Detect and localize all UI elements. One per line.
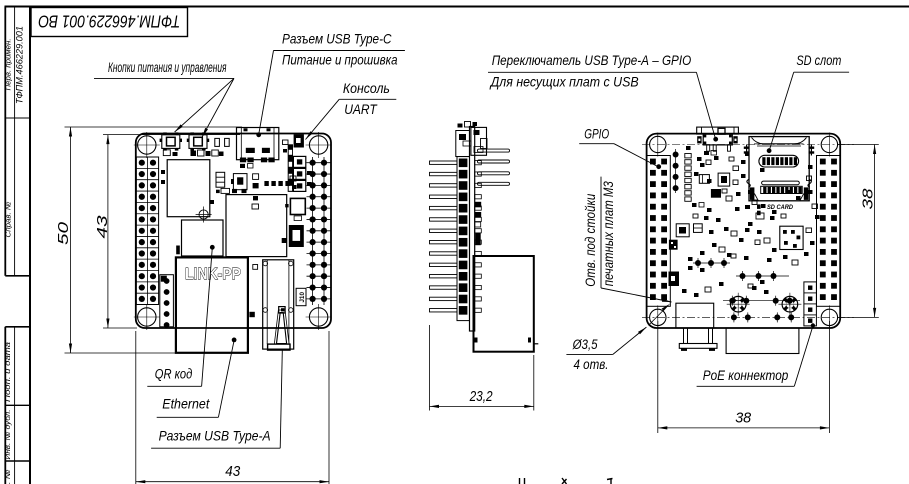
dimension 43 (board height, left) xyxy=(94,135,240,328)
callout: diameter 3,5 / 4 otv. xyxy=(566,304,670,372)
back mounting hole top-right xyxy=(821,133,837,157)
back mounting hole bottom-left xyxy=(650,305,666,329)
callout: Ethernet xyxy=(157,338,237,418)
back GPIO header right column xyxy=(817,156,841,307)
callout: Razem USB Type-A xyxy=(151,351,282,449)
label Sprav. No xyxy=(4,202,13,238)
side view: UART pins pointing right xyxy=(478,149,510,185)
side view: GPIO header body and pins xyxy=(430,157,482,321)
front header J7 (5-pin) xyxy=(160,275,174,328)
callout: PoE konnektor xyxy=(697,323,816,386)
label Podp. i data xyxy=(3,342,12,402)
back GPIO header left column xyxy=(647,156,671,307)
back pad column (inner left) xyxy=(685,154,691,202)
designation stamp box TFPM.466229.001 VO (rotated 180) xyxy=(31,8,188,37)
svg-text:Взам. инв. №: Взам. инв. № xyxy=(3,470,12,484)
svg-text:J10: J10 xyxy=(299,292,306,303)
label Vzam. inv. No (clipped) xyxy=(3,470,12,484)
sheet left frame border xyxy=(29,6,31,484)
callout: Knopki pitaniya i upravleniya xyxy=(94,60,234,137)
UART console header J5 xyxy=(288,134,306,192)
svg-text:Перв. примен.: Перв. примен. xyxy=(4,39,13,91)
callout: Razem USB Type-C / Pitanie i proshivka xyxy=(256,31,405,137)
dimension 50 (overall height, left) xyxy=(55,127,242,353)
dimension 38 (hole spacing, bottom) xyxy=(658,321,830,433)
svg-text:Питание и прошивка: Питание и прошивка xyxy=(282,53,398,68)
front mounting hole bottom-right xyxy=(306,304,332,330)
dimension 23,2 (side view) xyxy=(430,325,534,411)
callout: Pereklyuchatel USB Type-A - GPIO xyxy=(488,53,718,141)
svg-text:Для несущих плат с USB: Для несущих плат с USB xyxy=(489,74,639,89)
svg-text:SD CARD: SD CARD xyxy=(767,204,793,211)
IC U3 (large center) xyxy=(226,195,287,257)
title strip group 2 (Podp i data / Inv No dubl / Vzam inv No) xyxy=(5,327,30,484)
svg-text:23,2: 23,2 xyxy=(469,388,493,405)
front GPIO header right column xyxy=(307,157,331,305)
svg-text:UART: UART xyxy=(344,102,378,117)
Ethernet jack (LINK-PP) xyxy=(176,257,258,352)
dimension 43 (board width, bottom) xyxy=(136,331,329,484)
IC U2 (below U1) xyxy=(176,220,223,256)
back through-hole pin rows xyxy=(693,258,800,322)
IC U1 (top-left shield) xyxy=(167,160,210,217)
side view: Ethernet jack profile xyxy=(474,256,539,352)
svg-text:Кнопки питания и управления: Кнопки питания и управления xyxy=(108,60,227,75)
FRONT VIEW: board outline xyxy=(136,134,331,329)
svg-text:43: 43 xyxy=(225,463,241,480)
back small passive components xyxy=(676,146,819,297)
svg-text:Разъем USB Type-C: Разъем USB Type-C xyxy=(282,31,392,46)
front small passive components xyxy=(161,138,312,209)
torx standoff screw 2 xyxy=(778,293,801,316)
svg-text:Переключатель USB Туре-А – GPI: Переключатель USB Туре-А – GPIO xyxy=(492,53,692,68)
sheet top border xyxy=(5,6,909,8)
svg-text:QR код: QR код xyxy=(155,367,193,382)
back mini datamatrix blocks xyxy=(669,240,680,286)
back mounting hole top-left xyxy=(650,133,666,157)
callout: GPIO xyxy=(579,127,661,169)
PoE pin header (right inner column) xyxy=(804,282,817,326)
push button SW2 xyxy=(187,132,209,150)
torx standoff screw 1 xyxy=(727,293,750,316)
callout: Otv. pod stoyki pechatnykh plat M3 (rotated) xyxy=(583,177,671,302)
BACK VIEW: board outline xyxy=(647,134,841,328)
dimension 38 (hole spacing, right) xyxy=(838,145,879,318)
back via column left xyxy=(673,149,679,193)
header J10 xyxy=(296,288,306,305)
svg-text:Разъем USB Type-A: Разъем USB Type-A xyxy=(159,428,271,443)
svg-text:43: 43 xyxy=(94,215,111,239)
fiducial mark xyxy=(196,207,212,223)
front mounting hole bottom-left xyxy=(134,304,160,330)
back view hole centerlines xyxy=(642,145,854,318)
svg-text:ТФПМ.466229.001: ТФПМ.466229.001 xyxy=(15,26,25,104)
svg-text:Инв. № дубл.: Инв. № дубл. xyxy=(3,410,12,460)
front GPIO header left column xyxy=(136,157,158,305)
svg-text:SD слот: SD слот xyxy=(796,53,841,68)
label Perv. primen. xyxy=(4,39,13,91)
push button SW1 xyxy=(160,132,182,150)
PoE connector (below board) xyxy=(726,328,799,354)
title strip group 1 (Perv. primen / Sprav No) xyxy=(5,7,30,276)
micro-SD card slot xyxy=(744,137,814,216)
label TFPM.466229.001 xyxy=(15,26,25,104)
back USB Type-A body xyxy=(676,303,714,328)
side view: top connector stack (USB-C profile) xyxy=(456,122,487,157)
svg-text:печатных плат М3: печатных плат М3 xyxy=(601,181,616,286)
component U5 (black body, right edge) xyxy=(282,225,304,247)
svg-text:4 отв.: 4 отв. xyxy=(574,357,609,372)
front mounting hole top-right xyxy=(306,132,332,158)
svg-text:Ø3,5: Ø3,5 xyxy=(572,337,598,352)
svg-text:LINK-PP: LINK-PP xyxy=(185,266,241,283)
svg-text:Справ. №: Справ. № xyxy=(4,202,13,238)
USB switch (Type-A - GPIO slide switch) xyxy=(697,127,739,151)
callout: Konsol UART xyxy=(306,81,397,139)
svg-text:Отв. под стойки: Отв. под стойки xyxy=(583,193,598,286)
USB Type-A connector xyxy=(263,260,294,350)
callout: QR kod xyxy=(147,245,214,386)
svg-text:GPIO: GPIO xyxy=(584,127,609,142)
back USB Type-A legs (below board) xyxy=(679,328,717,351)
svg-text:38: 38 xyxy=(735,410,752,427)
svg-text:PoE коннектор: PoE коннектор xyxy=(703,368,789,383)
component U4 (right edge) xyxy=(285,198,305,220)
back square IC with pattern xyxy=(780,226,803,249)
back mounting hole bottom-right xyxy=(821,305,837,329)
SIDE VIEW: PCB edge xyxy=(470,127,475,332)
svg-text:50: 50 xyxy=(55,221,72,245)
side view: components on right of board xyxy=(475,202,482,245)
svg-text:Консоль: Консоль xyxy=(343,81,390,96)
svg-text:ТФПМ.466229.001 ВО: ТФПМ.466229.001 ВО xyxy=(38,12,180,32)
figure caption top fragments (clipped at bottom edge) xyxy=(520,478,613,484)
svg-text:Подп. и дата: Подп. и дата xyxy=(3,342,12,402)
label Inv. No dubl. xyxy=(3,410,12,460)
callout: SD slot xyxy=(767,53,849,153)
front mounting hole top-left xyxy=(134,132,160,158)
svg-text:38: 38 xyxy=(860,188,877,210)
svg-text:Ethernet: Ethernet xyxy=(162,397,210,412)
USB Type-C connector J1 xyxy=(237,128,279,163)
